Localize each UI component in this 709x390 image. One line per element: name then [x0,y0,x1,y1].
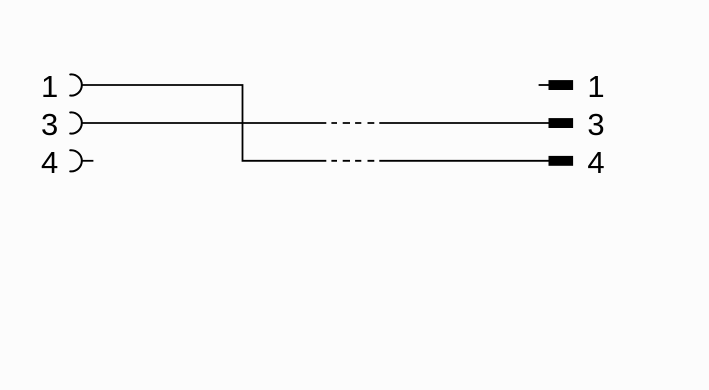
cable-break dashes row 3 [331,122,374,124]
pin contact 1 (right connector) [549,80,574,90]
svg-text:1: 1 [587,69,604,104]
svg-text:3: 3 [587,107,604,142]
svg-text:1: 1 [41,69,58,104]
pin contact 4 (right connector) [549,156,574,166]
svg-text:3: 3 [41,107,58,142]
cable-break dashes row 4 [331,160,374,162]
socket contact pin 3 (left connector) [70,112,82,133]
svg-text:4: 4 [41,145,58,180]
wire: left pin 4 open stub [82,160,93,162]
wire: left pin 1 horizontal run, crossover elbow down to row 4 [82,85,326,161]
socket contact pin 1 (left connector) [70,74,82,95]
wire: row 4 solid run to right pin 4 [379,160,548,162]
wire: right pin 1 open stub [539,84,549,86]
wire: left pin 3 horizontal run to cable break [82,122,326,124]
pin contact 3 (right connector) [549,118,574,128]
svg-text:4: 4 [587,145,604,180]
socket contact pin 4 (left connector) [70,150,82,171]
wire: row 3 solid run to right pin 3 [379,122,548,124]
